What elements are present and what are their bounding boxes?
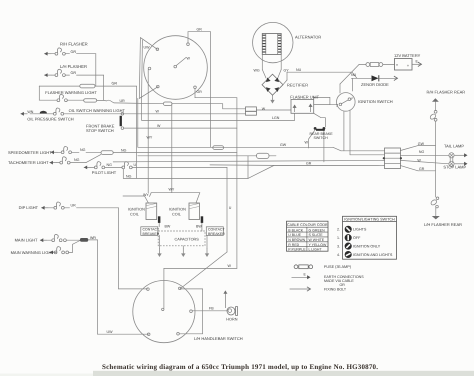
svg-text:NG: NG — [74, 158, 80, 162]
svg-text:IGNITION: IGNITION — [169, 208, 186, 212]
svg-text:ALTERNATOR: ALTERNATOR — [295, 35, 321, 40]
svg-text:L/H FLASHER REAR: L/H FLASHER REAR — [424, 222, 462, 227]
svg-text:U: U — [134, 163, 137, 167]
svg-text:F: F — [351, 97, 353, 101]
svg-text:BW: BW — [196, 224, 202, 228]
svg-text:FIXING BOLT: FIXING BOLT — [324, 287, 347, 291]
svg-text:TACHOMETER LIGHT: TACHOMETER LIGHT — [8, 160, 49, 165]
svg-text:W: W — [417, 158, 421, 162]
svg-text:OIL PRESSURE SWITCH: OIL PRESSURE SWITCH — [27, 117, 73, 122]
svg-text:BW: BW — [165, 224, 171, 228]
svg-text:U BLUE: U BLUE — [288, 233, 301, 237]
svg-text:LIGHTS: LIGHTS — [353, 228, 367, 232]
svg-text:LGN: LGN — [272, 116, 280, 120]
svg-text:L LIGHT: L LIGHT — [309, 248, 323, 252]
svg-text:NG: NG — [121, 148, 127, 152]
svg-text:TAIL LAMP: TAIL LAMP — [444, 144, 464, 149]
svg-text:CABLE COLOUR CODE: CABLE COLOUR CODE — [287, 223, 328, 227]
svg-text:GR: GR — [197, 28, 203, 32]
svg-text:3.: 3. — [337, 244, 340, 248]
svg-text:WY: WY — [169, 188, 175, 192]
svg-text:IGNITION SWITCH: IGNITION SWITCH — [358, 99, 393, 104]
svg-text:SPEEDOMETER LIGHT: SPEEDOMETER LIGHT — [8, 150, 52, 155]
svg-text:R/H FLASHER REAR: R/H FLASHER REAR — [427, 90, 466, 95]
svg-text:IGNITION AND LIGHTS: IGNITION AND LIGHTS — [353, 253, 393, 257]
svg-text:FLASHER UNIT: FLASHER UNIT — [290, 95, 319, 100]
svg-text:2: 2 — [336, 103, 338, 107]
svg-text:G GREEN: G GREEN — [309, 228, 326, 232]
svg-text:COIL: COIL — [130, 213, 139, 217]
svg-text:R RED: R RED — [288, 243, 299, 247]
svg-text:WR: WR — [90, 236, 96, 240]
svg-text:ZENOR DIODE: ZENOR DIODE — [361, 82, 389, 87]
svg-text:NU: NU — [296, 68, 302, 72]
svg-text:L/H FLASHER: L/H FLASHER — [60, 64, 87, 69]
svg-text:N BROWN: N BROWN — [288, 238, 305, 242]
svg-text:4.: 4. — [337, 253, 340, 257]
svg-text:W: W — [228, 264, 232, 268]
svg-text:BREAKER: BREAKER — [208, 232, 225, 236]
svg-text:R/H FLASHER: R/H FLASHER — [60, 42, 88, 47]
svg-text:DIP LIGHT: DIP LIGHT — [19, 205, 39, 210]
svg-text:MAIN WARNING LIGHT: MAIN WARNING LIGHT — [11, 250, 55, 255]
svg-text:UW: UW — [107, 330, 114, 334]
svg-text:COIL: COIL — [172, 213, 181, 217]
svg-text:B BLACK: B BLACK — [288, 228, 303, 232]
svg-text:GY: GY — [284, 69, 290, 73]
svg-text:W: W — [262, 107, 266, 111]
svg-text:GW: GW — [280, 143, 287, 147]
svg-text:UW: UW — [144, 46, 151, 50]
svg-text:W: W — [157, 124, 161, 128]
svg-text:WY: WY — [143, 193, 149, 197]
svg-text:STOP SWITCH: STOP SWITCH — [86, 128, 114, 133]
svg-text:OFF: OFF — [353, 236, 361, 240]
svg-text:GR: GR — [71, 71, 77, 75]
svg-text:2.: 2. — [337, 228, 340, 232]
svg-text:Y YELLOW: Y YELLOW — [309, 243, 327, 247]
svg-text:GR: GR — [71, 50, 77, 54]
svg-text:UR: UR — [71, 203, 77, 207]
svg-text:FB: FB — [209, 306, 214, 310]
svg-text:NG: NG — [126, 174, 132, 178]
svg-text:W: W — [156, 110, 160, 114]
svg-text:GR: GR — [306, 161, 312, 165]
svg-text:WY: WY — [147, 136, 153, 140]
svg-text:GR: GR — [112, 81, 118, 85]
svg-text:S SLATE: S SLATE — [309, 233, 324, 237]
svg-text:1.: 1. — [337, 236, 340, 240]
svg-text:UR: UR — [120, 99, 126, 103]
svg-text:NG: NG — [107, 163, 113, 167]
svg-text:GR: GR — [197, 90, 203, 94]
svg-text:W: W — [305, 140, 309, 144]
svg-text:NG: NG — [80, 148, 86, 152]
svg-text:GR: GR — [419, 167, 425, 171]
svg-text:HORN: HORN — [226, 317, 237, 321]
svg-text:GW: GW — [418, 142, 425, 146]
svg-text:WN: WN — [27, 110, 33, 114]
svg-text:SWITCH: SWITCH — [314, 136, 329, 140]
svg-text:12V BATTERY: 12V BATTERY — [394, 53, 421, 58]
svg-text:FLASHER WARNING LIGHT: FLASHER WARNING LIGHT — [45, 90, 97, 95]
svg-text:Schematic wiring diagram of a: Schematic wiring diagram of a 650cc Triu… — [102, 363, 378, 371]
svg-text:W: W — [187, 57, 191, 61]
svg-text:CAPACITORS: CAPACITORS — [175, 238, 200, 242]
svg-text:FUSE (35 AMP): FUSE (35 AMP) — [324, 265, 352, 269]
svg-text:RECTIFIER: RECTIFIER — [287, 83, 308, 88]
svg-text:WG: WG — [254, 69, 260, 73]
svg-text:MAIN LIGHT: MAIN LIGHT — [15, 237, 38, 242]
svg-text:U: U — [229, 206, 232, 210]
svg-text:IGNITION/LIGHTING SWITCH: IGNITION/LIGHTING SWITCH — [344, 218, 395, 222]
svg-text:PILOT LIGHT: PILOT LIGHT — [92, 170, 117, 175]
svg-text:IGNITION ONLY: IGNITION ONLY — [353, 245, 381, 249]
svg-text:W WHITE: W WHITE — [309, 238, 325, 242]
svg-text:BREAKER: BREAKER — [143, 232, 160, 236]
svg-text:OIL SWITCH WARNING LIGHT: OIL SWITCH WARNING LIGHT — [69, 108, 126, 113]
svg-text:L/H HANDLEBAR SWITCH: L/H HANDLEBAR SWITCH — [194, 336, 243, 341]
svg-text:P PURPLE: P PURPLE — [288, 248, 306, 252]
svg-text:NU: NU — [351, 73, 357, 77]
svg-text:IGNITION: IGNITION — [128, 208, 145, 212]
svg-text:STOP LAMP: STOP LAMP — [443, 165, 466, 170]
svg-text:NG: NG — [419, 150, 425, 154]
